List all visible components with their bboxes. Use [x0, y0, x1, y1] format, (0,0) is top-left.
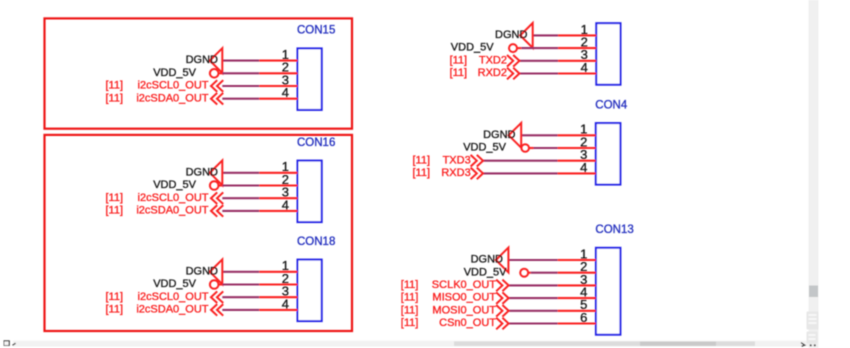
svg-text:MISO0_OUT: MISO0_OUT [432, 292, 496, 304]
svg-text:TXD3: TXD3 [443, 154, 471, 166]
wire CON15 pin 2 net segment [222, 72, 259, 74]
wire stub VDD_5V (CON18) [219, 283, 223, 285]
wire CON16 pin 4 net segment [222, 210, 259, 212]
wire CON18 pin 3 net segment [222, 296, 259, 298]
pin 5 of CON13 (red pin) [558, 310, 596, 312]
svg-text:4: 4 [282, 85, 289, 100]
off-page connector symbol for i2cSCL0_OUT (CON18) [211, 291, 217, 303]
ground power symbol DGND (CON16 pin 1) [210, 160, 223, 185]
connector CON15 body [298, 48, 322, 110]
svg-text:VDD_5V: VDD_5V [463, 142, 506, 154]
off-page connector symbol for i2cSDA0_OUT (CON16) [211, 205, 217, 217]
wire stub VDD_5V (CON13) [528, 272, 531, 274]
ground power symbol DGND (CON4 pin 1) [509, 123, 522, 148]
svg-text:[11]: [11] [401, 279, 419, 291]
wire top pin 2 net segment [521, 47, 558, 49]
svg-text:i2cSDA0_OUT: i2cSDA0_OUT [136, 92, 208, 104]
svg-text:CON4: CON4 [595, 99, 628, 111]
svg-text:CSn0_OUT: CSn0_OUT [439, 317, 496, 329]
svg-text:DGND: DGND [495, 29, 527, 41]
pin 2 of CON15 (red pin) [259, 72, 297, 74]
power symbol VDD_5V (CON13 pin 2) [520, 269, 528, 277]
svg-text:[11]: [11] [105, 192, 123, 204]
wire top pin 3 net segment [519, 60, 558, 62]
off-page connector symbol for MISO0_OUT (CON13) [502, 292, 508, 304]
pin 1 of CON18 (red pin) [259, 271, 297, 273]
svg-text:DGND: DGND [186, 166, 218, 178]
horizontal scrollbar thumb darker segment [640, 342, 716, 346]
svg-text:4: 4 [282, 197, 289, 212]
off-page connector symbol for i2cSCL0_OUT (CON16) [211, 192, 217, 204]
off-page connector symbol for CSn0_OUT (CON13) [502, 318, 508, 330]
wire stub VDD_5V (top) [517, 47, 521, 49]
svg-text:4: 4 [580, 160, 587, 175]
wire CON13 pin 1 net segment [508, 259, 557, 261]
svg-text:i2cSDA0_OUT: i2cSDA0_OUT [136, 304, 208, 316]
off-page connector symbol for RXD2 (top) [513, 68, 519, 80]
svg-text:i2cSCL0_OUT: i2cSCL0_OUT [138, 291, 209, 303]
wire top pin 1 net segment [533, 34, 558, 36]
horizontal scrollbar thumb [454, 342, 755, 346]
power symbol VDD_5V (CON18 pin 2) [210, 280, 219, 289]
svg-text:6: 6 [580, 310, 587, 325]
svg-text:[11]: [11] [401, 304, 419, 316]
svg-text:i2cSCL0_OUT: i2cSCL0_OUT [138, 80, 209, 92]
svg-text:[11]: [11] [412, 167, 430, 179]
svg-text:RXD3: RXD3 [441, 167, 470, 179]
svg-text:i2cSDA0_OUT: i2cSDA0_OUT [136, 205, 208, 217]
pin 2 of CON4 (red pin) [558, 147, 596, 149]
off-page connector symbol for TXD3 (CON4) [477, 155, 483, 167]
svg-text:TXD2: TXD2 [479, 54, 507, 66]
wire CON13 pin 2 net segment [531, 272, 558, 274]
connector CON16 body [298, 161, 322, 223]
svg-text:DGND: DGND [186, 54, 218, 66]
pin 1 of CON15 (red pin) [259, 60, 297, 62]
pin 3 of CON15 (red pin) [259, 85, 297, 87]
wire CON18 pin 2 net segment [222, 283, 259, 285]
vertical scrollbar track (right edge) [809, 0, 819, 348]
red selection box 1 (around CON15) [45, 18, 353, 128]
svg-text:[11]: [11] [450, 67, 468, 79]
pin 3 of CON18 (red pin) [259, 296, 297, 298]
connector CON18 body [298, 260, 322, 322]
pin 4 of CON16 (red pin) [259, 210, 297, 212]
wire stub VDD_5V (CON15) [219, 72, 223, 74]
off-page connector symbol for SCLK0_OUT (CON13) [502, 280, 508, 292]
svg-text:CON13: CON13 [595, 224, 633, 236]
wire CON13 pin 6 net segment [509, 322, 558, 324]
wire CON18 pin 4 net segment [222, 309, 259, 311]
pin 4 of CON18 (red pin) [259, 309, 297, 311]
connector (unnamed) body [596, 23, 620, 84]
svg-text:CON16: CON16 [297, 137, 335, 149]
svg-text:[11]: [11] [450, 54, 468, 66]
svg-text:i2cSCL0_OUT: i2cSCL0_OUT [138, 192, 209, 204]
bottom-left diagonal mark [13, 343, 16, 345]
power symbol VDD_5V (top pin 2) [509, 44, 517, 52]
svg-text:VDD_5V: VDD_5V [153, 179, 196, 191]
svg-text:DGND: DGND [471, 254, 503, 266]
connector CON13 body [596, 248, 621, 335]
pin 2 of CON13 (red pin) [558, 272, 596, 274]
ground power symbol DGND (top pin 1) [520, 23, 533, 48]
red selection box 2 (around CON16 and CON18) [45, 135, 353, 331]
off-page connector symbol for RXD3 (CON4) [477, 168, 483, 180]
wire CON4 pin 2 net segment [531, 147, 558, 149]
off-page connector symbol for TXD2 (top) [513, 55, 519, 67]
wire CON4 pin 3 net segment [483, 160, 558, 162]
svg-text:SCLK0_OUT: SCLK0_OUT [432, 279, 496, 291]
pin 2 of top connector (red pin) [558, 47, 596, 49]
svg-text:VDD_5V: VDD_5V [464, 266, 507, 278]
bottom-left corner icon (small square) [4, 341, 9, 346]
svg-text:[11]: [11] [105, 80, 123, 92]
wire CON4 pin 1 net segment [521, 134, 557, 136]
svg-text:[11]: [11] [401, 292, 419, 304]
wire CON16 pin 3 net segment [222, 197, 259, 199]
bottom-right arrow mark [801, 343, 805, 347]
ground power symbol DGND (CON18 pin 1) [210, 259, 223, 284]
wire CON13 pin 5 net segment [509, 310, 558, 312]
svg-text:[11]: [11] [105, 291, 123, 303]
svg-text:VDD_5V: VDD_5V [451, 42, 494, 54]
power symbol VDD_5V (CON15 pin 2) [210, 69, 219, 78]
wire CON15 pin 3 net segment [222, 85, 259, 87]
ground power symbol DGND (CON15 pin 1) [210, 48, 223, 73]
wire stub VDD_5V (CON4) [529, 147, 534, 149]
bottom-right scrollbar dots [810, 344, 816, 346]
svg-text:MOSI0_OUT: MOSI0_OUT [432, 304, 496, 316]
pin 2 of CON18 (red pin) [259, 283, 297, 285]
power symbol VDD_5V (CON4 pin 2) [521, 144, 529, 152]
wire top pin 4 net segment [519, 72, 558, 74]
wire CON16 pin 1 net segment [222, 172, 259, 174]
svg-text:DGND: DGND [186, 265, 218, 277]
pin 1 of CON4 (red pin) [558, 134, 596, 136]
wire CON4 pin 4 net segment [483, 172, 558, 174]
wire CON18 pin 1 net segment [222, 271, 259, 273]
pin 4 of top connector (red pin) [558, 72, 596, 74]
faint watermark glyphs on scrollbar [807, 312, 819, 344]
svg-text:CON15: CON15 [297, 25, 335, 37]
svg-text:RXD2: RXD2 [478, 67, 507, 79]
wire CON16 pin 2 net segment [222, 184, 259, 186]
svg-text:4: 4 [282, 296, 289, 311]
pin 3 of top connector (red pin) [558, 60, 596, 62]
power symbol VDD_5V (CON16 pin 2) [210, 181, 219, 190]
pin 6 of CON13 (red pin) [558, 322, 596, 324]
pin 1 of CON13 (red pin) [558, 259, 596, 261]
wire CON15 pin 1 net segment [222, 60, 259, 62]
off-page connector symbol for i2cSDA0_OUT (CON15) [211, 93, 217, 105]
off-page connector symbol for i2cSCL0_OUT (CON15) [211, 80, 217, 92]
svg-text:[11]: [11] [105, 304, 123, 316]
svg-text:[11]: [11] [105, 205, 123, 217]
svg-text:[11]: [11] [105, 92, 123, 104]
pin 3 of CON13 (red pin) [558, 284, 596, 286]
wire CON15 pin 4 net segment [222, 98, 259, 100]
pin 4 of CON15 (red pin) [259, 98, 297, 100]
svg-text:[11]: [11] [401, 317, 419, 329]
svg-text:CON18: CON18 [297, 236, 335, 248]
vertical scrollbar thumb [809, 286, 818, 298]
svg-text:4: 4 [581, 60, 588, 75]
pin 1 of CON16 (red pin) [259, 172, 297, 174]
wire stub VDD_5V (CON16) [219, 184, 223, 186]
svg-text:DGND: DGND [483, 129, 515, 141]
horizontal scrollbar track (bottom edge) [13, 341, 809, 347]
svg-text:VDD_5V: VDD_5V [153, 278, 196, 290]
svg-text:VDD_5V: VDD_5V [153, 67, 196, 79]
off-page connector symbol for MOSI0_OUT (CON13) [502, 305, 508, 317]
pin 3 of CON4 (red pin) [558, 160, 596, 162]
pin 3 of CON16 (red pin) [259, 197, 297, 199]
pin 4 of CON4 (red pin) [558, 172, 596, 174]
pin 2 of CON16 (red pin) [259, 184, 297, 186]
pin 4 of CON13 (red pin) [558, 297, 596, 299]
pin 1 of top connector (red pin) [558, 34, 596, 36]
ground power symbol DGND (CON13 pin 1) [496, 248, 509, 273]
wire CON13 pin 3 net segment [509, 284, 558, 286]
off-page connector symbol for i2cSDA0_OUT (CON18) [211, 304, 217, 316]
connector CON4 body [596, 123, 621, 185]
wire CON13 pin 4 net segment [509, 297, 558, 299]
svg-text:[11]: [11] [412, 154, 430, 166]
